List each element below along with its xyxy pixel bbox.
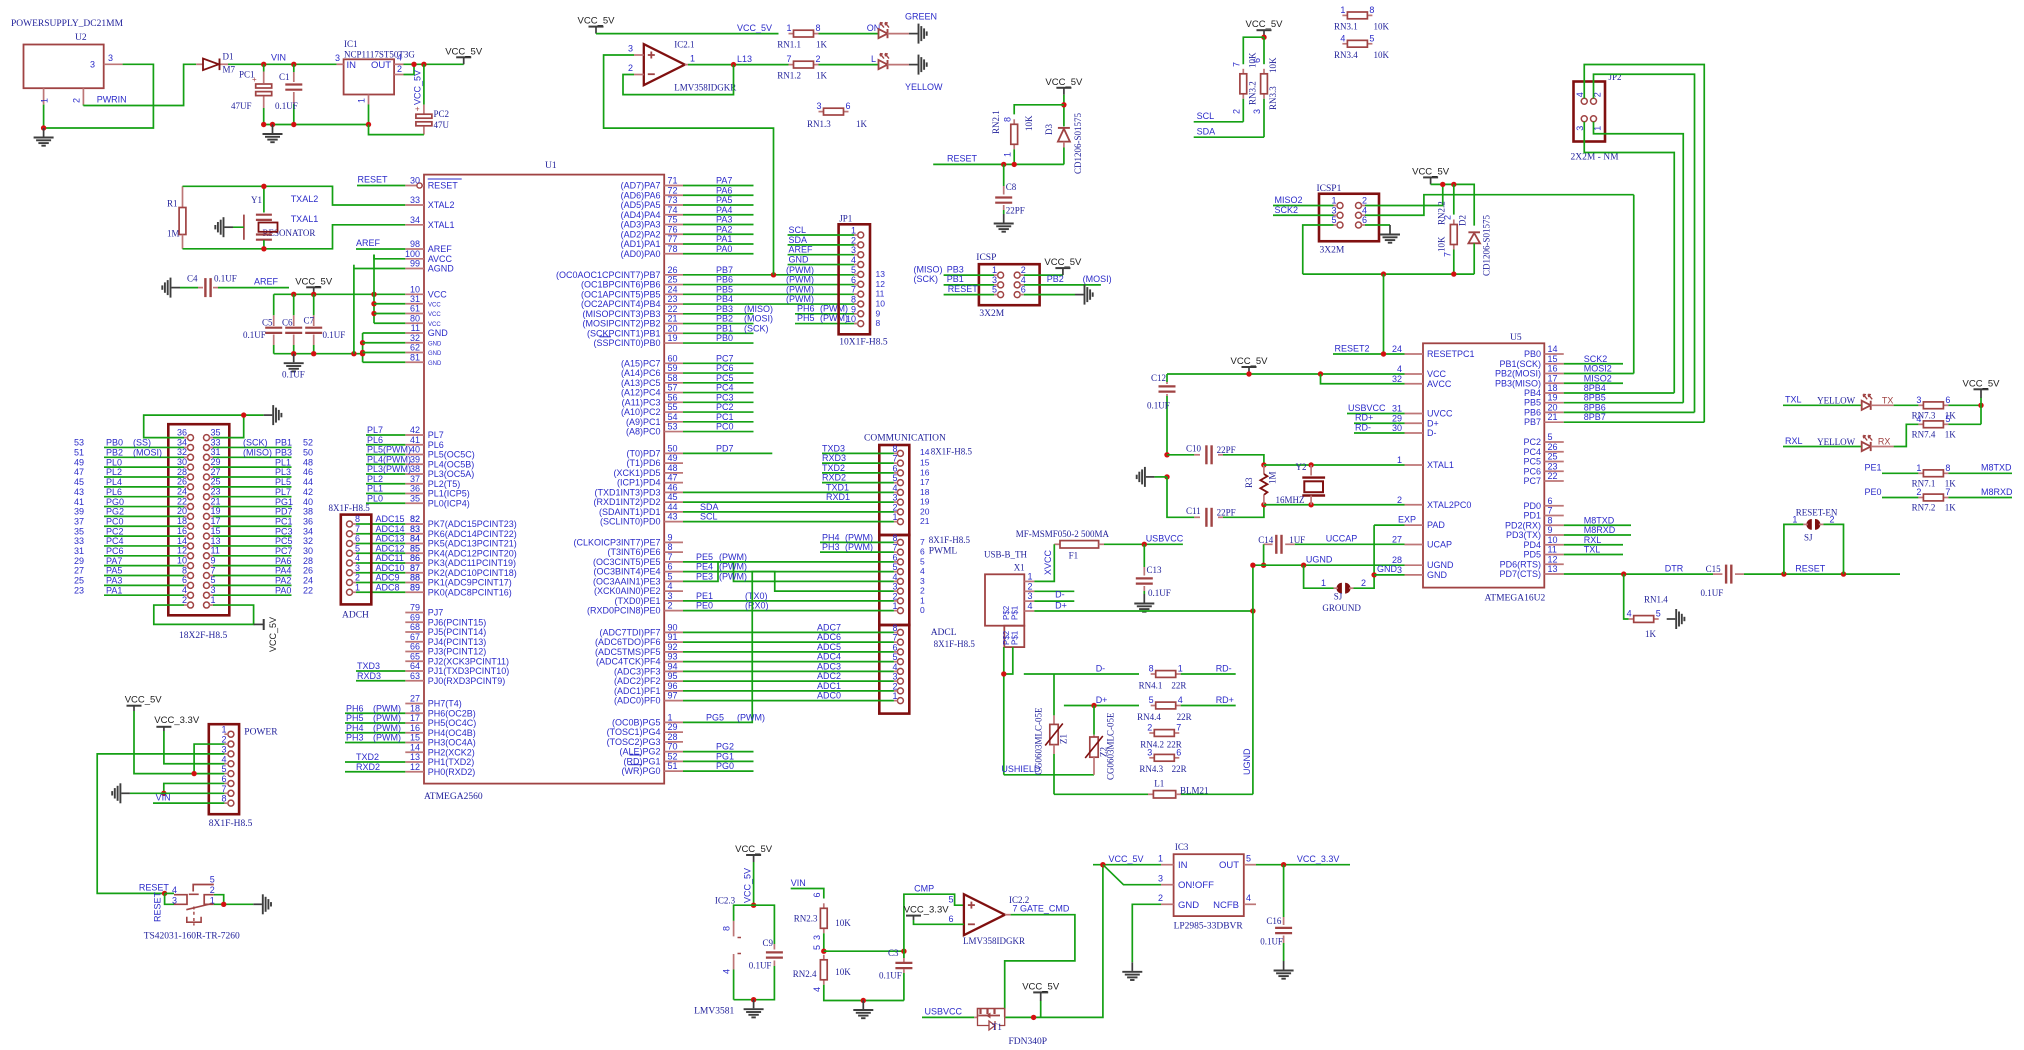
svg-text:22PF: 22PF (1217, 445, 1236, 455)
COMM pad 2 (897, 509, 903, 515)
wire M8RXD (1564, 534, 1631, 536)
PWML pad 6 (897, 559, 903, 565)
wire SDA (788, 244, 854, 246)
svg-text:RN3.2: RN3.2 (1248, 81, 1258, 105)
svg-text:31: 31 (211, 447, 221, 457)
svg-text:(OC3AAIN1)PE3: (OC3AAIN1)PE3 (593, 576, 661, 586)
svg-text:1M: 1M (1268, 471, 1278, 484)
svg-text:GREEN: GREEN (905, 12, 937, 22)
wire D- row (1024, 673, 1139, 675)
wire ADC7 to ADCL (683, 631, 857, 633)
wire PL1 (366, 493, 405, 495)
svg-text:18: 18 (410, 703, 420, 713)
svg-text:3: 3 (1575, 126, 1585, 131)
svg-text:1: 1 (1003, 152, 1013, 157)
svg-text:64: 64 (410, 661, 420, 671)
svg-text:22R: 22R (1171, 680, 1186, 690)
svg-text:1: 1 (690, 54, 695, 64)
wire PC0 (683, 431, 754, 433)
svg-text:2: 2 (892, 681, 897, 691)
capacitor C8 22PF (1003, 164, 1005, 186)
JP1 pad 8 (858, 301, 864, 307)
svg-text:38: 38 (303, 507, 313, 517)
pin (MOSIPCINT2)PB2 21 (664, 323, 683, 325)
wire PH6 (345, 712, 405, 714)
svg-text:PB4: PB4 (716, 294, 733, 304)
svg-text:30: 30 (410, 176, 420, 186)
svg-text:8: 8 (1369, 5, 1374, 15)
svg-text:LP2985-33DBVR: LP2985-33DBVR (1174, 922, 1244, 932)
svg-text:42: 42 (410, 425, 420, 435)
svg-text:12: 12 (410, 762, 420, 772)
svg-text:86: 86 (410, 553, 420, 563)
svg-text:TXAL2: TXAL2 (291, 194, 319, 204)
svg-text:56: 56 (668, 392, 678, 402)
svg-text:0.1UF: 0.1UF (749, 961, 772, 971)
svg-text:2: 2 (816, 54, 821, 64)
svg-text:5: 5 (1331, 215, 1336, 225)
wire diagonal to ON!OFF (1103, 865, 1161, 885)
wire RXD2 (822, 482, 857, 484)
svg-text:39: 39 (410, 454, 420, 464)
svg-text:PB3: PB3 (275, 448, 292, 458)
pin 1 IN (1161, 864, 1174, 866)
wire PH5 PWM to JP1 pin10 (795, 323, 857, 325)
pin PL0(ICP4) 35 (405, 502, 424, 504)
svg-text:10K: 10K (1268, 57, 1278, 73)
svg-text:5: 5 (211, 575, 216, 585)
svg-text:9: 9 (876, 308, 881, 318)
wire PA7 (683, 185, 754, 187)
svg-text:NCP1117ST50T3G: NCP1117ST50T3G (344, 50, 415, 60)
pin UVCC 31 (1405, 413, 1424, 415)
svg-text:SCL: SCL (1197, 111, 1215, 121)
svg-text:6: 6 (892, 463, 897, 473)
svg-text:34: 34 (177, 437, 187, 447)
wire XTAL2 (1264, 504, 1405, 506)
svg-text:C11: C11 (1186, 506, 1201, 516)
svg-text:PH4: PH4 (346, 723, 364, 733)
svg-text:1: 1 (1792, 514, 1797, 524)
pin (AD7)PA7 71 (664, 185, 683, 187)
svg-text:3: 3 (108, 53, 113, 63)
svg-text:1: 1 (851, 226, 856, 236)
svg-text:(XCK1)PD5: (XCK1)PD5 (613, 468, 660, 478)
svg-text:PWRIN: PWRIN (97, 95, 127, 105)
svg-text:VCC_3.3V: VCC_3.3V (1297, 854, 1340, 864)
crystal Y2 16MHZ (1308, 462, 1313, 467)
svg-text:99: 99 (410, 259, 420, 269)
pin VCC 31 (405, 303, 424, 305)
pin (ADC4TCK)PF4 93 (664, 661, 683, 663)
svg-text:5: 5 (1656, 609, 1661, 619)
header row pins 2/1 (188, 602, 194, 608)
op-amp IC2.2 (964, 894, 1005, 935)
pin (A9)PC1 54 (664, 421, 683, 423)
svg-text:D-: D- (1055, 590, 1065, 600)
svg-text:3: 3 (1147, 747, 1152, 757)
wire VCC_5V to IN (1093, 864, 1161, 866)
pin VCC 61 (405, 313, 424, 315)
resistor RN7.2 1K (1918, 497, 1923, 499)
wire pin3 to ground rail (44, 64, 154, 128)
svg-text:0.1UF: 0.1UF (275, 101, 298, 111)
pin UGND 28 (1405, 564, 1424, 566)
svg-text:SJ: SJ (1334, 592, 1343, 602)
wire PH3 (345, 742, 405, 744)
wire MISO2 (1273, 205, 1334, 207)
svg-text:ADC6: ADC6 (817, 632, 841, 642)
svg-text:LMV358IDGKR: LMV358IDGKR (963, 936, 1025, 946)
svg-text:USB-B_TH: USB-B_TH (984, 550, 1028, 560)
wire row1 to ground (144, 415, 264, 438)
svg-text:22: 22 (303, 585, 313, 595)
svg-text:7: 7 (920, 537, 925, 547)
wire TXD3 (356, 670, 405, 672)
pin (SSPCINT0)PB0 19 (664, 342, 683, 344)
svg-text:AREF: AREF (789, 245, 814, 255)
pin (RXD1INT2)PD2 45 (664, 501, 683, 503)
svg-text:1: 1 (1178, 664, 1183, 674)
wire PG1 (683, 760, 754, 762)
svg-text:C6: C6 (282, 318, 293, 328)
pin PD2(RX) 8 (1544, 524, 1563, 526)
supply VCC_5V for LEDs (595, 27, 597, 34)
wires to ground (214, 895, 224, 905)
svg-text:29: 29 (211, 457, 221, 467)
shield pins (1004, 647, 1013, 674)
pin (XCK0AIN0)PE2 4 (664, 590, 683, 592)
svg-text:7: 7 (1232, 62, 1242, 67)
net RESET wire (933, 163, 1064, 165)
svg-text:95: 95 (668, 671, 678, 681)
pin PK1(ADC9PCINT17) 88 (405, 582, 424, 584)
svg-text:PC4: PC4 (106, 536, 124, 546)
capacitor C1 0.1UF (293, 64, 295, 72)
capacitor C5 0.1UF (273, 294, 275, 315)
svg-text:4: 4 (1397, 364, 1402, 374)
svg-text:47U: 47U (434, 120, 450, 130)
svg-text:26: 26 (177, 477, 187, 487)
svg-text:D+: D+ (1096, 695, 1108, 705)
svg-text:(ADC4TCK)PF4: (ADC4TCK)PF4 (596, 657, 661, 667)
svg-text:RD+: RD+ (1216, 695, 1234, 705)
svg-text:6: 6 (1252, 58, 1262, 63)
resistor R3 1M zigzag (1261, 462, 1266, 467)
svg-text:6: 6 (1021, 285, 1026, 295)
svg-text:AGND: AGND (428, 264, 455, 274)
svg-text:28: 28 (303, 556, 313, 566)
svg-text:UCCAP: UCCAP (1326, 534, 1358, 544)
svg-text:(PWM): (PWM) (845, 532, 873, 542)
pin (A15)PC7 60 (664, 362, 683, 364)
svg-text:5: 5 (992, 285, 997, 295)
JP1 pad 5 (858, 271, 864, 277)
svg-text:11: 11 (211, 546, 220, 556)
pin PH1(TXD2) 13 (405, 761, 424, 763)
pin PH3(OC4A) 15 (405, 742, 424, 744)
wire ADC10 (369, 572, 406, 574)
svg-text:4: 4 (355, 553, 360, 563)
ADCH pad 5 (347, 550, 353, 556)
pin PK3(ADC11PCINT19) 86 (405, 562, 424, 564)
svg-text:7: 7 (211, 565, 216, 575)
wire PC1 (213, 525, 292, 527)
svg-text:GND: GND (428, 361, 442, 367)
svg-text:PB6: PB6 (1524, 407, 1541, 417)
svg-text:2: 2 (1158, 893, 1163, 903)
supply VCC_5V (1430, 177, 1432, 184)
wire to LED ON (819, 33, 879, 35)
wire pin5 to RESET2 rail (1303, 225, 1334, 274)
COMM pad 1 (897, 519, 903, 525)
svg-text:PH1(TXD2): PH1(TXD2) (428, 757, 475, 767)
svg-text:PG1: PG1 (716, 751, 734, 761)
wire MISO2 (1564, 382, 1623, 384)
svg-text:(MOSIPCINT2)PB2: (MOSIPCINT2)PB2 (582, 319, 660, 329)
wire PL2 (366, 483, 405, 485)
wire pin2 to VCC_5V (1365, 184, 1443, 205)
svg-text:5: 5 (892, 652, 897, 662)
svg-text:(MISO): (MISO) (744, 304, 773, 314)
wire VIN (228, 63, 337, 65)
ICSP1 pads row 3 (1337, 222, 1343, 228)
svg-text:(SCK): (SCK) (914, 274, 939, 284)
svg-text:23: 23 (1548, 461, 1558, 471)
pin PL3(OC5A) 38 (405, 473, 424, 475)
svg-text:PA1: PA1 (106, 585, 122, 595)
svg-text:PA5: PA5 (716, 195, 732, 205)
switch TS42031 reset button (165, 892, 174, 894)
svg-text:(PWM): (PWM) (373, 733, 401, 743)
svg-text:6: 6 (892, 552, 897, 562)
svg-text:82: 82 (410, 514, 420, 524)
svg-text:PK2(ADC10PCINT18): PK2(ADC10PCINT18) (428, 568, 517, 578)
svg-text:32: 32 (1392, 374, 1402, 384)
supply VCC_5V (463, 57, 465, 64)
svg-text:UGND: UGND (1306, 555, 1333, 565)
svg-text:M8TXD: M8TXD (1981, 463, 2012, 473)
svg-text:PH4: PH4 (822, 532, 840, 542)
pin (ADC5TMS)PF5 92 (664, 651, 683, 653)
pin (OC1APCINT5)PB5 24 (664, 293, 683, 295)
svg-text:(OC3BINT4)PE4: (OC3BINT4)PE4 (593, 567, 660, 577)
svg-text:5: 5 (812, 945, 822, 950)
svg-text:ADC1: ADC1 (817, 681, 841, 691)
pin (ADC3)PF3 94 (664, 670, 683, 672)
pin (OC0B)PG5 1 (664, 721, 683, 723)
svg-text:4: 4 (1028, 601, 1033, 611)
svg-text:50: 50 (303, 448, 313, 458)
svg-text:22R: 22R (1177, 712, 1192, 722)
svg-text:(OC0AOC1CPCINT7)PB7: (OC0AOC1CPCINT7)PB7 (556, 270, 661, 280)
svg-text:14: 14 (920, 447, 930, 457)
svg-text:43: 43 (74, 487, 84, 497)
svg-text:PH3: PH3 (346, 733, 364, 743)
GND row (1371, 572, 1376, 577)
svg-text:(WR)PG0: (WR)PG0 (622, 766, 661, 776)
wire USBVCC (1104, 543, 1183, 545)
svg-text:RN3.1: RN3.1 (1334, 22, 1358, 32)
svg-text:4: 4 (397, 53, 402, 63)
wire PC1 (683, 421, 754, 423)
svg-text:PL3(OC5A): PL3(OC5A) (428, 469, 475, 479)
svg-text:(MOSI): (MOSI) (744, 314, 773, 324)
pin 5 bracket (189, 885, 214, 895)
capacitor C13 0.1UF (1143, 544, 1145, 567)
wire ADC13 (369, 543, 406, 545)
svg-text:RXD2: RXD2 (356, 762, 380, 772)
wire MOSI2 (1564, 373, 1634, 375)
svg-text:52: 52 (303, 438, 313, 448)
wire pin1 down (43, 105, 45, 128)
svg-text:44: 44 (303, 477, 313, 487)
ground return wire (369, 125, 424, 135)
svg-text:1: 1 (892, 691, 897, 701)
POWER pad 3 (228, 751, 234, 757)
pin 4 OUT (394, 63, 403, 65)
wire ADC3 to ADCL (683, 670, 857, 672)
svg-text:PL2(T5): PL2(T5) (428, 479, 461, 489)
capacitor C10 22PF (1164, 452, 1169, 457)
wire ADC11 (369, 562, 406, 564)
pin GND 81 (405, 361, 424, 363)
svg-text:(AD4)PA4: (AD4)PA4 (621, 210, 661, 220)
svg-text:ADC12: ADC12 (376, 543, 405, 553)
wire M8TXD (1948, 472, 2012, 474)
svg-text:0.1UF: 0.1UF (323, 330, 346, 340)
svg-text:10K: 10K (835, 918, 851, 928)
svg-text:PC7: PC7 (716, 353, 734, 363)
svg-text:BLM21: BLM21 (1180, 785, 1209, 795)
svg-text:U1: U1 (545, 161, 557, 171)
wire PA7 (104, 565, 184, 567)
wire RXD3 (822, 462, 857, 464)
svg-text:47: 47 (668, 473, 678, 483)
svg-text:RXD3: RXD3 (357, 671, 381, 681)
svg-text:MISO2: MISO2 (1584, 373, 1612, 383)
svg-text:8: 8 (851, 294, 856, 304)
svg-text:PG1: PG1 (275, 497, 293, 507)
svg-text:(TXD0)PE1: (TXD0)PE1 (614, 596, 660, 606)
pin (ADC2)PF2 95 (664, 680, 683, 682)
svg-text:25: 25 (668, 275, 678, 285)
wire PG1 (213, 506, 292, 508)
svg-text:1: 1 (357, 98, 367, 103)
wire PB2 MOSI (1024, 284, 1101, 286)
svg-text:OUT: OUT (1219, 860, 1239, 871)
svg-text:60: 60 (668, 353, 678, 363)
svg-text:27: 27 (74, 566, 84, 576)
svg-text:3: 3 (668, 591, 673, 601)
ground for resonator (224, 226, 233, 228)
svg-text:6: 6 (668, 562, 673, 572)
pin (ADC0)PF0 97 (664, 700, 683, 702)
svg-text:PL3(PWM): PL3(PWM) (367, 464, 411, 474)
wire top rail to XTAL2 (183, 186, 406, 205)
wire TXL (1783, 404, 1862, 406)
pin PJ1(TXD3PCINT10) 64 (405, 670, 424, 672)
svg-text:SCL: SCL (700, 512, 718, 522)
svg-text:PL0(ICP4): PL0(ICP4) (428, 498, 470, 508)
svg-text:PJ0(RXD3PCINT9): PJ0(RXD3PCINT9) (428, 676, 506, 686)
ICSP pads row 2 (998, 282, 1004, 288)
svg-text:RN1.1: RN1.1 (777, 40, 801, 50)
svg-text:VCC_5V: VCC_5V (1246, 19, 1284, 30)
resistor RN7.3 1K (1918, 404, 1923, 406)
svg-text:XTAL2: XTAL2 (428, 200, 455, 210)
svg-text:42: 42 (303, 487, 313, 497)
svg-text:YELLOW: YELLOW (1817, 437, 1855, 447)
svg-text:35: 35 (74, 526, 84, 536)
ADCL pad 3 (897, 678, 903, 684)
svg-text:MOSI2: MOSI2 (1584, 364, 1612, 374)
PWML pad 4 (897, 578, 903, 584)
wire AGND vertical (353, 265, 355, 354)
svg-text:(PWM): (PWM) (820, 313, 848, 323)
svg-text:20: 20 (668, 323, 678, 333)
svg-text:3: 3 (355, 563, 360, 573)
wire PL3(PWM) (366, 473, 405, 475)
pin (SCLINT0)PD0 43 (664, 521, 683, 523)
wire TXD2 (345, 761, 405, 763)
svg-text:67: 67 (410, 632, 420, 642)
svg-text:7: 7 (1442, 252, 1452, 257)
svg-text:RXD3: RXD3 (822, 453, 846, 463)
pin PK7(ADC15PCINT23) 82 (405, 523, 424, 525)
svg-text:PJ6(PCINT15): PJ6(PCINT15) (428, 617, 487, 627)
wire to RN2.1 (1014, 105, 1064, 115)
svg-text:3: 3 (628, 44, 633, 54)
connector U2 power jack (24, 45, 104, 89)
svg-text:71: 71 (668, 176, 678, 186)
svg-text:PL1: PL1 (367, 484, 383, 494)
svg-text:26: 26 (668, 265, 678, 275)
wire PB1 (683, 332, 754, 334)
svg-text:PB5: PB5 (716, 284, 733, 294)
svg-text:33: 33 (74, 536, 84, 546)
header row pins 4/3 (188, 592, 194, 598)
svg-text:3: 3 (892, 493, 897, 503)
pin GND 3 (1405, 574, 1424, 576)
svg-text:5: 5 (221, 764, 226, 774)
wire VCC_5V to RN1.1 (596, 33, 779, 35)
pin 2 of U2 (82, 88, 84, 104)
svg-text:4: 4 (892, 572, 897, 582)
svg-text:4: 4 (1178, 695, 1183, 705)
pin (T1)PD6 49 (664, 462, 683, 464)
pin (TXD1INT3)PD3 46 (664, 491, 683, 493)
pin (TXD0)PE1 3 (664, 600, 683, 602)
svg-text:68: 68 (410, 622, 420, 632)
svg-text:YELLOW: YELLOW (1817, 396, 1855, 406)
svg-text:ATMEGA16U2: ATMEGA16U2 (1485, 594, 1546, 604)
svg-text:PA2: PA2 (275, 576, 291, 586)
svg-text:29: 29 (1392, 413, 1402, 423)
pin GND 62 (405, 352, 424, 354)
svg-text:9: 9 (668, 532, 673, 542)
svg-text:3: 3 (892, 582, 897, 592)
svg-text:5: 5 (355, 543, 360, 553)
svg-text:PL0: PL0 (106, 457, 122, 467)
svg-text:41: 41 (410, 435, 420, 445)
svg-text:POWERSUPPLY_DC21MM: POWERSUPPLY_DC21MM (11, 19, 124, 29)
svg-text:ADC8: ADC8 (376, 582, 400, 592)
svg-text:34: 34 (303, 526, 313, 536)
wire PB3 MISO (944, 274, 994, 276)
svg-text:AVCC: AVCC (1427, 379, 1452, 389)
ground (264, 414, 273, 416)
